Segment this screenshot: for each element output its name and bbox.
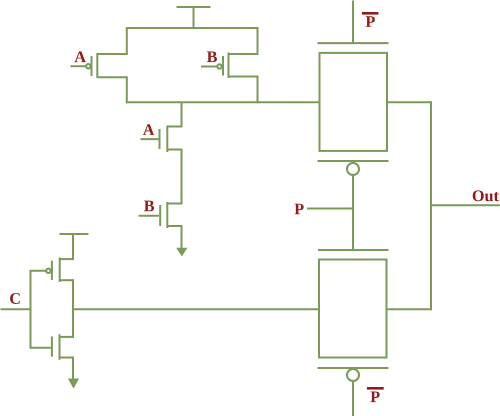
wire node N1 bus (PMOS network output to TG1 input) [126,101,320,103]
wire NMOS stack to ground [181,225,183,249]
label A (gate of NMOS A) [143,124,154,135]
wire C gate riser [30,271,32,348]
transistor B (NMOS, series stack) [139,202,182,228]
transistor PMOS (C inverter) [30,258,74,283]
transistor A (PMOS, parallel pair) [71,28,127,103]
transmission gate TG1 top gate plate (Pbar) [318,42,389,44]
wire P gate rail (TG1 bubble to TG2 gate) [352,176,354,251]
ground arrow (NMOS stack) [176,248,187,257]
bubble TG2 PMOS gate [347,369,359,381]
wire Pbar lead (TG2 bubble to bottom edge) [352,382,354,416]
wire Pbar lead (top edge down to TG1 gate) [352,1,354,44]
label P (control input) [295,204,304,215]
label A (gate of PMOS A) [75,51,86,62]
transistor A (NMOS, series stack) [141,126,182,153]
label C (inverter input) [10,293,20,304]
bubble TG1 PMOS gate [347,163,359,175]
transmission gate TG2 top gate plate (P) [318,249,389,251]
wire output bus (right vertical) [430,101,432,310]
wire P lead [307,208,353,210]
wire node N2 (inverter output to TG2 input) [73,308,319,310]
label B (gate of NMOS B) [144,201,154,212]
label Pbar (bottom, overline P) [367,387,384,402]
label Pbar (top, overline P) [362,12,379,27]
label B (gate of PMOS B) [207,51,217,62]
transmission gate TG1 bottom gate plate [318,160,389,162]
label Out [473,190,499,201]
transmission gate TG2 bottom gate plate [318,367,389,369]
transmission gate TG2 body [319,260,387,358]
transistor B (PMOS, parallel pair) [201,28,258,103]
wire TG2 output [387,308,433,310]
wire inverter output node (PMOS drain to NMOS drain) [72,279,74,338]
wire TG1 output [387,101,432,103]
wire Out [431,204,500,206]
wire VDD rail (top) [126,27,259,29]
wire branch from N1 down to NMOS stack [181,102,183,127]
power symbol VDD1 (top supply for parallel PMOS pair) [177,7,211,29]
transmission gate TG1 body [320,53,388,151]
wire between NMOS A and NMOS B [181,149,183,205]
wire inverter NMOS source to ground [72,357,74,380]
power symbol VDD2 (inverter supply) [60,234,89,260]
ground arrow (inverter) [68,379,79,389]
transistor NMOS (C inverter) [30,334,74,360]
wire input C from left edge [1,308,31,310]
